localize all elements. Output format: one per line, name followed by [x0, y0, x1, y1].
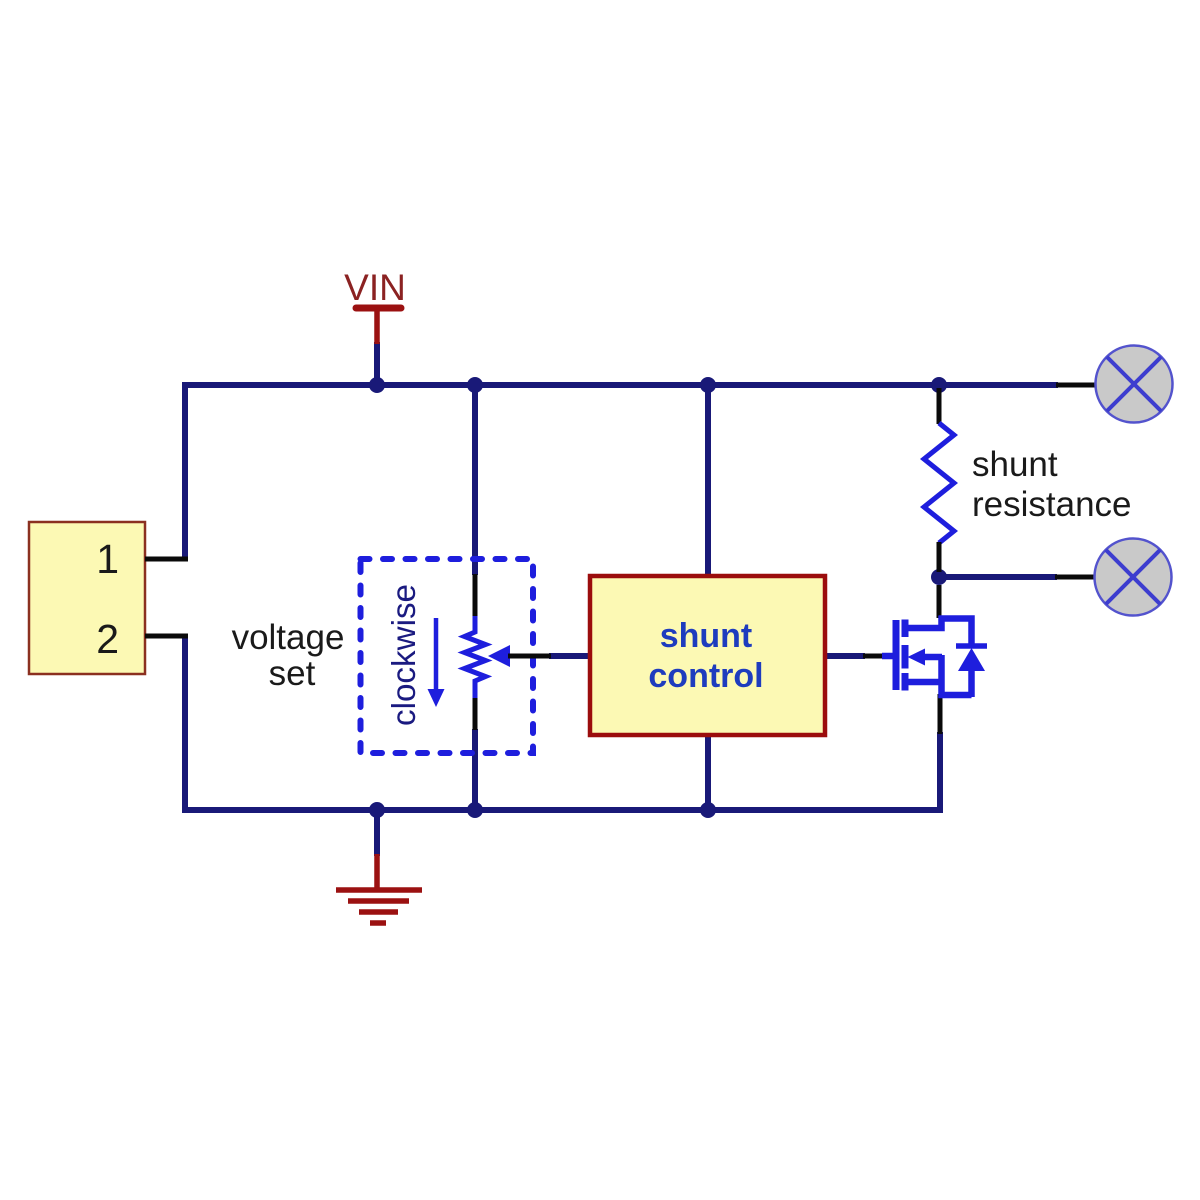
ground symbol	[336, 854, 422, 923]
junction dot: shunt control / top rail	[700, 377, 716, 393]
wire: potentiometer bottom branch	[472, 729, 478, 810]
wire: shunt control bottom branch	[705, 733, 711, 810]
pin 1 lead	[145, 557, 188, 562]
terminal circle bottom (load connection)	[1095, 539, 1172, 616]
source arrow head	[908, 649, 926, 666]
svg-text:clockwise: clockwise	[386, 584, 423, 726]
svg-text:shunt: shunt	[972, 445, 1058, 484]
terminal circle top (load connection)	[1096, 346, 1173, 423]
svg-text:1: 1	[96, 536, 119, 582]
wire: VIN stub (blue part)	[374, 342, 380, 388]
wire: top rail + upper left rail	[185, 385, 1058, 561]
top terminal lead (black)	[1056, 383, 1097, 388]
wiper arrow	[488, 645, 510, 667]
svg-text:resistance: resistance	[972, 485, 1132, 524]
shunt resistance label	[972, 445, 1132, 524]
wire: lower left rail + bottom rail + right riser to MOSFET source	[185, 637, 940, 810]
shunt control block	[590, 576, 825, 735]
shunt control label	[648, 617, 763, 695]
bottom lead (black)	[937, 542, 942, 572]
wire: shunt control output to MOSFET gate	[825, 653, 865, 659]
gate bar	[893, 620, 900, 690]
wiper lead (black)	[508, 654, 551, 659]
top lead (black)	[937, 388, 942, 424]
top lead (black)	[473, 574, 478, 617]
body diode bottom lead	[968, 669, 975, 697]
svg-text:voltage: voltage	[232, 618, 345, 657]
svg-text:set: set	[269, 654, 316, 693]
clockwise direction arrow	[428, 618, 445, 707]
junction dot: shunt control / bottom rail	[700, 802, 716, 818]
resistor body zigzag	[465, 616, 486, 698]
VIN power flag	[356, 308, 401, 344]
connector J1 (2-pin header)	[29, 522, 145, 674]
source lead (black)	[938, 694, 943, 734]
wire: ground stub (blue part)	[374, 810, 380, 856]
channel segment top	[902, 620, 909, 638]
junction dot: pot branch / bottom rail	[467, 802, 483, 818]
wire: pot wiper to shunt control input	[549, 653, 592, 659]
wire: potentiometer top branch	[472, 385, 478, 575]
source connection	[905, 679, 942, 686]
junction dot: shunt resistor bottom node	[931, 569, 947, 585]
dashed annotation box	[361, 559, 534, 753]
junction dot: shunt resistor / top rail	[931, 377, 947, 393]
bottom lead (black)	[473, 697, 478, 730]
pin 2 lead	[145, 634, 188, 639]
gate lead (black)	[863, 654, 884, 659]
wire: shunt control top branch	[705, 385, 711, 578]
voltage set label	[232, 618, 345, 693]
source arrow line	[942, 655, 972, 695]
junction dot: ground / bottom rail	[369, 802, 385, 818]
drain connection	[905, 616, 942, 628]
MOSFET Q1 (n-channel with body diode)	[863, 585, 987, 734]
junction dot: pot branch / top rail	[467, 377, 483, 393]
drain lead (black)	[937, 585, 942, 618]
svg-text:shunt: shunt	[660, 617, 753, 655]
potentiometer (voltage set pot)	[465, 574, 552, 730]
svg-text:control: control	[648, 657, 763, 695]
junction dot: VIN / top rail	[369, 377, 385, 393]
channel segment middle	[902, 645, 909, 669]
lower terminal lead (black)	[1055, 575, 1096, 580]
shunt resistor	[924, 388, 954, 572]
gate lead (blue part)	[882, 653, 893, 660]
wire: lower terminal branch	[939, 574, 1057, 580]
body diode cathode bar	[956, 643, 987, 649]
channel segment bottom	[902, 673, 909, 691]
svg-text:2: 2	[96, 616, 119, 662]
zigzag body	[924, 423, 954, 543]
body diode top connection	[939, 619, 972, 645]
svg-text:VIN: VIN	[344, 267, 406, 308]
body diode anode triangle	[958, 648, 985, 671]
